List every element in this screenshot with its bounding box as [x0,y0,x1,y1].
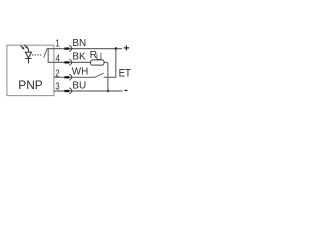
svg-text:ET: ET [119,68,132,80]
sensor body box [7,45,54,95]
svg-text:BN: BN [72,38,86,49]
connector contact pin4 [64,59,72,65]
photodiode D1 (triangle, cathode bar, leads) [25,48,31,63]
photodiode D1 arrow 1 [21,46,25,50]
plus terminal [124,45,129,50]
wire from RL to down-corner [104,62,108,91]
wire pin2 WH right segment [104,76,117,78]
wire pin1 BN [54,48,123,50]
output switch S1 frame [48,49,54,63]
svg-text:4: 4 [56,54,61,65]
svg-text:WH: WH [72,67,88,78]
svg-text:BK: BK [72,52,86,63]
teach switch blade on WH [94,73,103,77]
wire pin3 BU [54,90,123,92]
actuation dashed link [32,54,42,56]
junction dot BU [107,90,110,93]
load resistor RL body [91,60,104,65]
svg-text:BU: BU [72,80,86,91]
minus terminal [125,89,128,91]
svg-text:3: 3 [55,82,60,93]
vertical link BN to WH (ET) [115,49,117,78]
svg-text:1: 1 [55,39,60,50]
connector contact pin1 [64,45,72,51]
wire pin4 BK [54,61,91,63]
output switch S1 blade [44,48,48,58]
junction dot BN [114,47,117,50]
wire pin2 WH [54,76,95,78]
faint stroke artifact [100,53,102,57]
connector contact pin3 [64,88,72,94]
connector contact pin2 [64,74,72,80]
svg-text:PNP: PNP [18,78,42,92]
photodiode D1 arrow 2 [24,45,28,49]
svg-text:2: 2 [55,69,60,80]
